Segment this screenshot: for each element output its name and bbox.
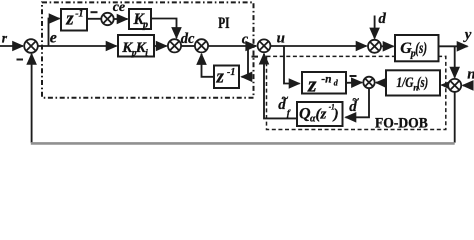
svg-text:z: z: [216, 67, 225, 88]
svg-text:~: ~: [281, 91, 288, 105]
svg-text:-1: -1: [75, 9, 83, 20]
svg-text:p: p: [142, 19, 148, 30]
svg-text:FO-DOB: FO-DOB: [375, 115, 428, 131]
svg-text:i: i: [145, 48, 148, 58]
svg-text:(s): (s): [415, 40, 427, 57]
svg-text:r: r: [2, 30, 8, 45]
svg-text:1/G: 1/G: [396, 75, 414, 91]
svg-text:(z: (z: [316, 107, 327, 123]
svg-text:u: u: [277, 31, 285, 47]
svg-text:c: c: [242, 31, 249, 47]
svg-text:n: n: [467, 67, 474, 83]
svg-text:-n: -n: [321, 74, 331, 86]
svg-text:z: z: [307, 71, 317, 96]
svg-text:dc: dc: [181, 31, 195, 47]
svg-text:~: ~: [352, 93, 359, 107]
svg-text:e: e: [50, 29, 57, 46]
svg-text:z: z: [65, 9, 74, 30]
svg-text:(s): (s): [417, 75, 428, 91]
svg-text:): ): [332, 107, 339, 123]
svg-text:d: d: [378, 11, 386, 27]
svg-text:-1: -1: [227, 67, 235, 78]
svg-text:ce: ce: [113, 0, 125, 15]
svg-text:y: y: [463, 27, 472, 43]
svg-text:PI: PI: [218, 15, 229, 32]
